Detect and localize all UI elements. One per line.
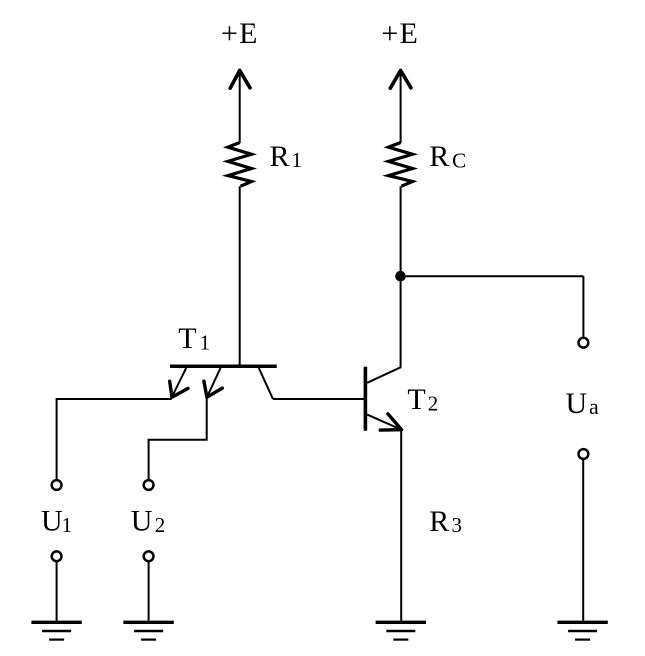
terminal circle U2 top [144,480,154,490]
svg-text:2: 2 [155,513,166,537]
transistor T2 collector [367,367,401,383]
svg-text:R: R [429,505,449,538]
svg-text:3: 3 [452,513,463,537]
terminal circle U1 bottom [52,551,62,561]
ground (U2) [123,622,173,639]
node (output junction dot) [395,271,406,282]
label RC [429,140,466,173]
svg-text:U: U [566,387,588,420]
wire U2 to ground [148,561,150,620]
ground (U1) [31,622,81,639]
supply arrow right (to +E) [390,70,411,143]
transistor T1 collector [259,368,273,399]
transistor T1 emitter 2 [204,368,222,397]
wire U1 to ground [56,561,58,620]
svg-text:1: 1 [292,148,303,172]
wire RC bottom to node [400,186,402,367]
label R1 [270,140,303,173]
terminal circle U2 bottom [144,551,154,561]
svg-text:+E: +E [221,17,259,50]
label U2 [131,505,166,538]
terminal circle Ua top [579,338,589,348]
transistor T1 emitter 1 [170,368,188,397]
svg-text:T: T [178,322,196,355]
label Ua [566,387,600,420]
ground (T2 emitter) [376,622,426,639]
wire node to output column [401,275,584,277]
svg-text:2: 2 [428,391,439,415]
transistor T2 emitter [367,414,401,430]
label T2 [407,383,438,416]
transistor T2 bar [364,367,368,431]
svg-text:T: T [407,383,425,416]
transistor T1 (dual-emitter) base bar [170,365,277,369]
svg-text:R: R [429,140,449,173]
wire emitter2 to U2 terminal [149,397,207,480]
resistor RC [388,143,412,187]
wire T2 emitter to ground (through R3) [400,430,402,621]
svg-text:a: a [589,394,599,419]
svg-text:R: R [270,140,290,173]
svg-text:1: 1 [200,331,211,355]
svg-text:U: U [41,505,63,538]
wire emitter1 to U1 terminal [57,399,172,480]
ground (output) [557,622,607,639]
label U1 [41,505,72,538]
label T1 [178,322,210,355]
wire T1 collector to T2 base [273,398,364,400]
terminal circle Ua bottom [579,449,589,459]
svg-text:+E: +E [381,17,419,50]
wire Ua bottom terminal to ground [582,459,584,621]
svg-text:C: C [452,148,466,172]
supply arrow left (to +E) [230,70,250,143]
svg-text:1: 1 [62,513,73,537]
svg-text:U: U [131,505,153,538]
terminal circle U1 top [52,480,62,490]
resistor R1 [228,143,252,187]
wire output column down to terminal [582,276,584,337]
label R3 [429,505,462,538]
wire R1 bottom to T1 base bar [239,186,241,366]
